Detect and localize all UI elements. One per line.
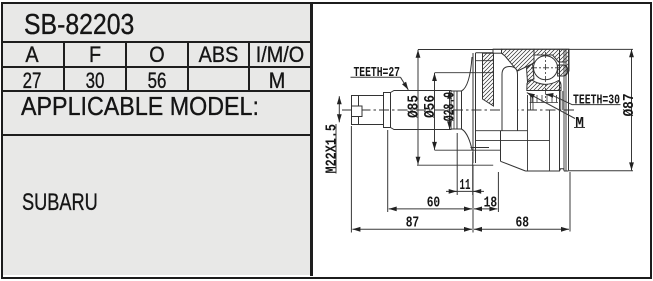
dim87 line [352,228,472,230]
ring outer edge [461,91,463,129]
race bore bottom [530,102,559,104]
row line under header [3,66,312,68]
race hub edge right b [562,91,564,110]
svg-text:TEETH=27: TEETH=27 [354,65,401,81]
svg-text:M22X1.5: M22X1.5 [323,124,340,174]
header I/M/O [253,42,308,68]
header ABS [192,42,246,68]
seat top inner line [476,60,494,62]
svg-text:Ø28.9: Ø28.9 [443,92,459,122]
ball [534,56,558,80]
housing face [473,53,476,163]
phi87 ext top [569,48,633,50]
boot flare top [462,57,473,91]
wall hatch left over dome [502,49,535,71]
back ring 1 [559,50,561,171]
table gray background [3,4,311,275]
dim11 arrows [449,190,457,192]
flange column hatched [483,53,494,106]
svg-text:M: M [575,116,584,132]
dim60 line [389,208,472,210]
race bore splines [532,95,557,103]
thread chamfer line [358,96,360,125]
dim11 ext right [472,152,474,195]
window dome post [502,67,518,131]
svg-text:87: 87 [406,214,420,231]
row line under title [3,41,312,43]
title SB-82203 [24,9,134,42]
svg-text:18: 18 [484,195,498,212]
phi85 ext top [418,49,493,51]
row line under data [3,90,312,92]
ball horizontal centerline [531,67,561,69]
ball vertical centerline [545,52,547,101]
phi56 ext top [435,72,494,74]
M leader [527,93,575,119]
header F [68,42,123,68]
race hub edge right a [560,91,562,110]
inner bore line upper [476,130,528,132]
phi85 ext bottom [417,164,493,166]
ring top/bottom [451,91,462,129]
race hub edge left b [532,94,534,110]
shaft seat bottom edge [471,147,490,149]
housing bottom edge [526,169,569,171]
dim18 ext right [497,172,499,212]
inner bore line lower [476,139,550,141]
M22 dim line [338,96,340,122]
phi87 dim line [631,49,633,170]
col line A|F [63,41,65,92]
col line F|O [125,41,127,92]
svg-text:Ø56: Ø56 [423,95,439,118]
dim87 ext left [350,126,352,233]
teeth30 leader [552,95,573,105]
row line under applicable model [3,134,312,136]
bore edge vertical 1 [527,95,529,171]
col line ABS|IMO [248,41,250,92]
header O [130,42,185,68]
housing top edge [493,48,569,50]
phi28.9 dim line [449,91,451,129]
spline end ring [450,91,452,130]
dim60 ext left [387,130,389,212]
teeth27 underline [351,76,401,78]
subaru label [22,189,98,217]
wall hatch right [534,49,569,71]
bore edge vertical 2 [549,110,551,171]
seat top line [476,52,494,54]
bottom step vertical [500,131,502,161]
back ring 2 [564,50,566,171]
dim18 line [474,208,497,210]
teeth30 underline [573,104,621,106]
header A [4,42,60,68]
phi56 ext bottom / seat bottom line [435,149,501,151]
inner race [527,80,561,91]
centerline [342,109,576,111]
spline ring 2 [456,91,458,129]
phi56 dim line [434,73,436,150]
race hub edge left a [530,94,532,110]
boot flare bottom [462,129,473,150]
svg-text:11: 11 [460,177,471,194]
svg-text:60: 60 [427,195,441,212]
thread stub [352,96,384,125]
cage left [527,64,535,83]
teeth30 leader arrow [545,93,552,96]
applicable model label [21,91,259,122]
svg-text:Ø85: Ø85 [406,95,422,118]
M underline [574,127,585,129]
dim11 ext left [456,133,458,195]
phi87 ext bottom [569,170,633,172]
dim11 arrow right [473,190,481,192]
rim ridge top [493,49,502,53]
spline ring 2b [453,91,455,129]
dim68 line [474,228,569,230]
ext joint face [472,165,474,233]
dim68 ext right [569,172,571,232]
data 30 [72,68,119,94]
data 56 [134,68,181,94]
spline section TEETH=27 [391,91,452,130]
back face [568,49,570,171]
M22 underline [335,124,337,174]
data M [250,68,305,94]
svg-text:68: 68 [516,214,530,231]
step cylinder [384,93,391,128]
col line O|ABS [187,41,189,92]
cage right [558,65,568,76]
data 27 [8,68,56,94]
phi85 dim line [417,50,419,165]
svg-text:Ø87: Ø87 [622,94,638,117]
bottom diagonal to OD [501,161,526,171]
teeth27 leader [401,77,409,90]
cotter box on stub [352,106,363,117]
svg-text:TEETH=30: TEETH=30 [573,92,620,108]
dim11 line [446,190,484,192]
table right border [310,3,313,276]
